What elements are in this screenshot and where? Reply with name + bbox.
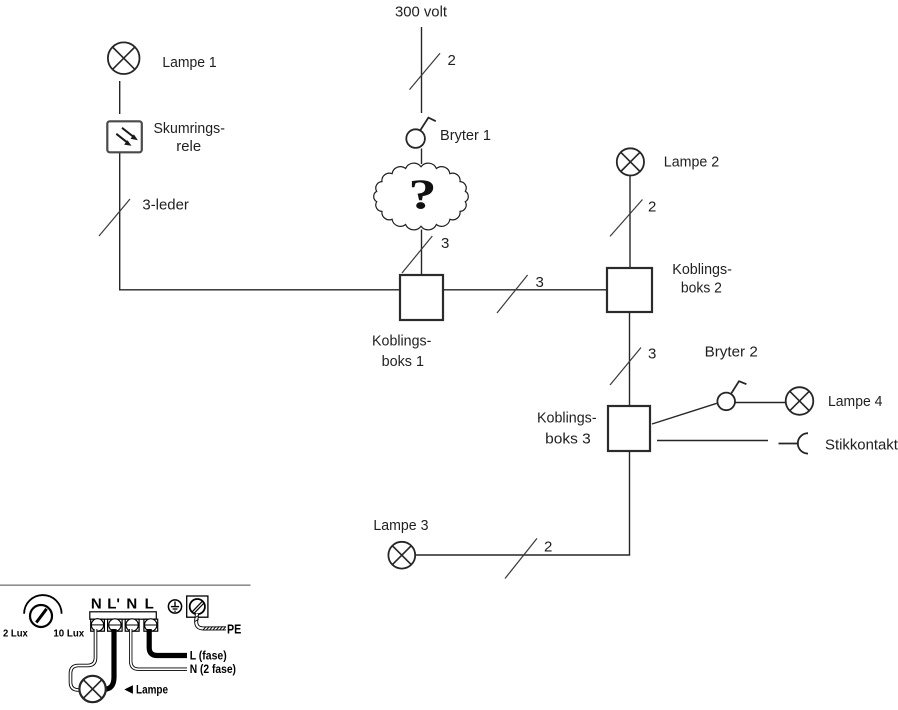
earth screw terminal box — [187, 596, 208, 617]
svg-text:Lampe 3: Lampe 3 — [373, 517, 428, 534]
wire Bryter 2 to Lampe 4 — [736, 402, 786, 404]
switch Bryter 2 — [717, 381, 746, 410]
svg-text:300 volt: 300 volt — [395, 4, 448, 21]
svg-text:2: 2 — [448, 52, 456, 69]
switch Bryter 1 — [406, 118, 435, 148]
cloud (unknown section) — [374, 163, 469, 230]
lux adjustment dial — [24, 595, 62, 627]
wire box3 down and left to Lampe 3 — [415, 451, 629, 555]
conductor-count slash 2 (top feed) — [410, 53, 441, 89]
protective earth symbol — [168, 600, 181, 613]
svg-text:N: N — [91, 596, 102, 613]
svg-text:boks 1: boks 1 — [382, 353, 424, 370]
lamp Lampe 2 — [617, 148, 644, 175]
svg-text:Bryter 1: Bryter 1 — [440, 127, 491, 144]
conductor-count slash 2 (lamp 3 run) — [505, 538, 537, 578]
svg-text:2: 2 — [544, 539, 552, 556]
wire box2 to box3 — [629, 312, 631, 406]
wire N1 to lamp (white conductor) — [71, 629, 96, 690]
svg-text:Koblings-: Koblings- — [372, 333, 431, 350]
dusk relay Skumringsrele box — [107, 121, 142, 152]
conductor-count slash 3-leder — [99, 199, 130, 236]
wire L' to lamp (black conductor) — [105, 629, 115, 689]
wire N2 to N (2 fase) (white conductor) — [131, 629, 187, 669]
svg-text:L (fase): L (fase) — [190, 651, 227, 663]
svg-text:3: 3 — [648, 345, 656, 362]
svg-text:2: 2 — [648, 199, 656, 216]
wire box1 left to dusk relay (L-shape) — [120, 153, 400, 290]
terminal block — [90, 612, 158, 631]
svg-text:rele: rele — [176, 138, 201, 155]
svg-text:N (2 fase): N (2 fase) — [190, 664, 236, 676]
svg-text:boks 3: boks 3 — [545, 430, 591, 447]
svg-text:Koblings-: Koblings- — [672, 261, 732, 278]
svg-text:2 Lux: 2 Lux — [3, 628, 28, 640]
svg-text:L: L — [145, 596, 154, 613]
wire Lampe 1 to dusk relay — [119, 81, 121, 114]
wire Bryter 1 to cloud — [421, 149, 423, 165]
lamp Lampe 3 — [388, 542, 415, 569]
conductor-count slash 3 (box2-box3) — [610, 348, 641, 386]
wire Lampe 2 to box 2 — [629, 176, 631, 268]
wire from 300 volt to Bryter 1 — [421, 27, 423, 113]
conductor-count slash 3 (cloud to box 1) — [402, 236, 432, 273]
socket outlet Stikkontakt symbol — [779, 433, 809, 453]
junction box Koblingsboks 2 — [607, 268, 652, 312]
lamp Lampe 4 — [786, 387, 814, 415]
svg-text:PE: PE — [227, 622, 241, 636]
inset top border line — [0, 584, 251, 586]
svg-text:Bryter 2: Bryter 2 — [705, 343, 758, 360]
question mark — [408, 171, 436, 218]
svg-text:3: 3 — [441, 235, 449, 252]
Lampe pointer triangle — [124, 685, 132, 694]
wire cloud to Koblingsboks 1 — [421, 230, 423, 276]
svg-text:Lampe: Lampe — [136, 682, 168, 696]
junction box Koblingsboks 3 — [608, 406, 650, 451]
junction box Koblingsboks 1 — [400, 275, 443, 320]
svg-text:3: 3 — [536, 274, 544, 291]
svg-text:3-leder: 3-leder — [142, 196, 189, 213]
svg-text:Lampe 1: Lampe 1 — [162, 54, 216, 71]
svg-text:boks 2: boks 2 — [681, 279, 722, 296]
svg-text:?: ? — [408, 171, 436, 218]
svg-text:Koblings-: Koblings- — [537, 409, 597, 426]
svg-text:Stikkontakt: Stikkontakt — [825, 436, 898, 453]
wire box3 to Bryter 2 (diagonal) — [652, 403, 717, 424]
svg-text:Skumrings-: Skumrings- — [154, 120, 225, 137]
lamp Lampe 1 — [108, 42, 140, 74]
conductor-count slash 3 (box1-box2) — [497, 275, 528, 313]
svg-text:L': L' — [107, 596, 120, 613]
inset lamp symbol — [79, 676, 105, 702]
svg-text:Lampe 4: Lampe 4 — [828, 393, 882, 410]
PE conductor (hatched wire) — [196, 614, 226, 629]
svg-text:N: N — [126, 596, 137, 613]
wire L to L (fase) (black conductor) — [149, 629, 187, 656]
wire box3 to stikkontakt — [657, 440, 768, 442]
conductor-count slash 2 (lamp 2 drop) — [610, 200, 643, 237]
svg-text:Lampe 2: Lampe 2 — [664, 154, 719, 171]
wire box1 to box2 — [443, 289, 607, 291]
svg-text:10 Lux: 10 Lux — [53, 628, 84, 640]
